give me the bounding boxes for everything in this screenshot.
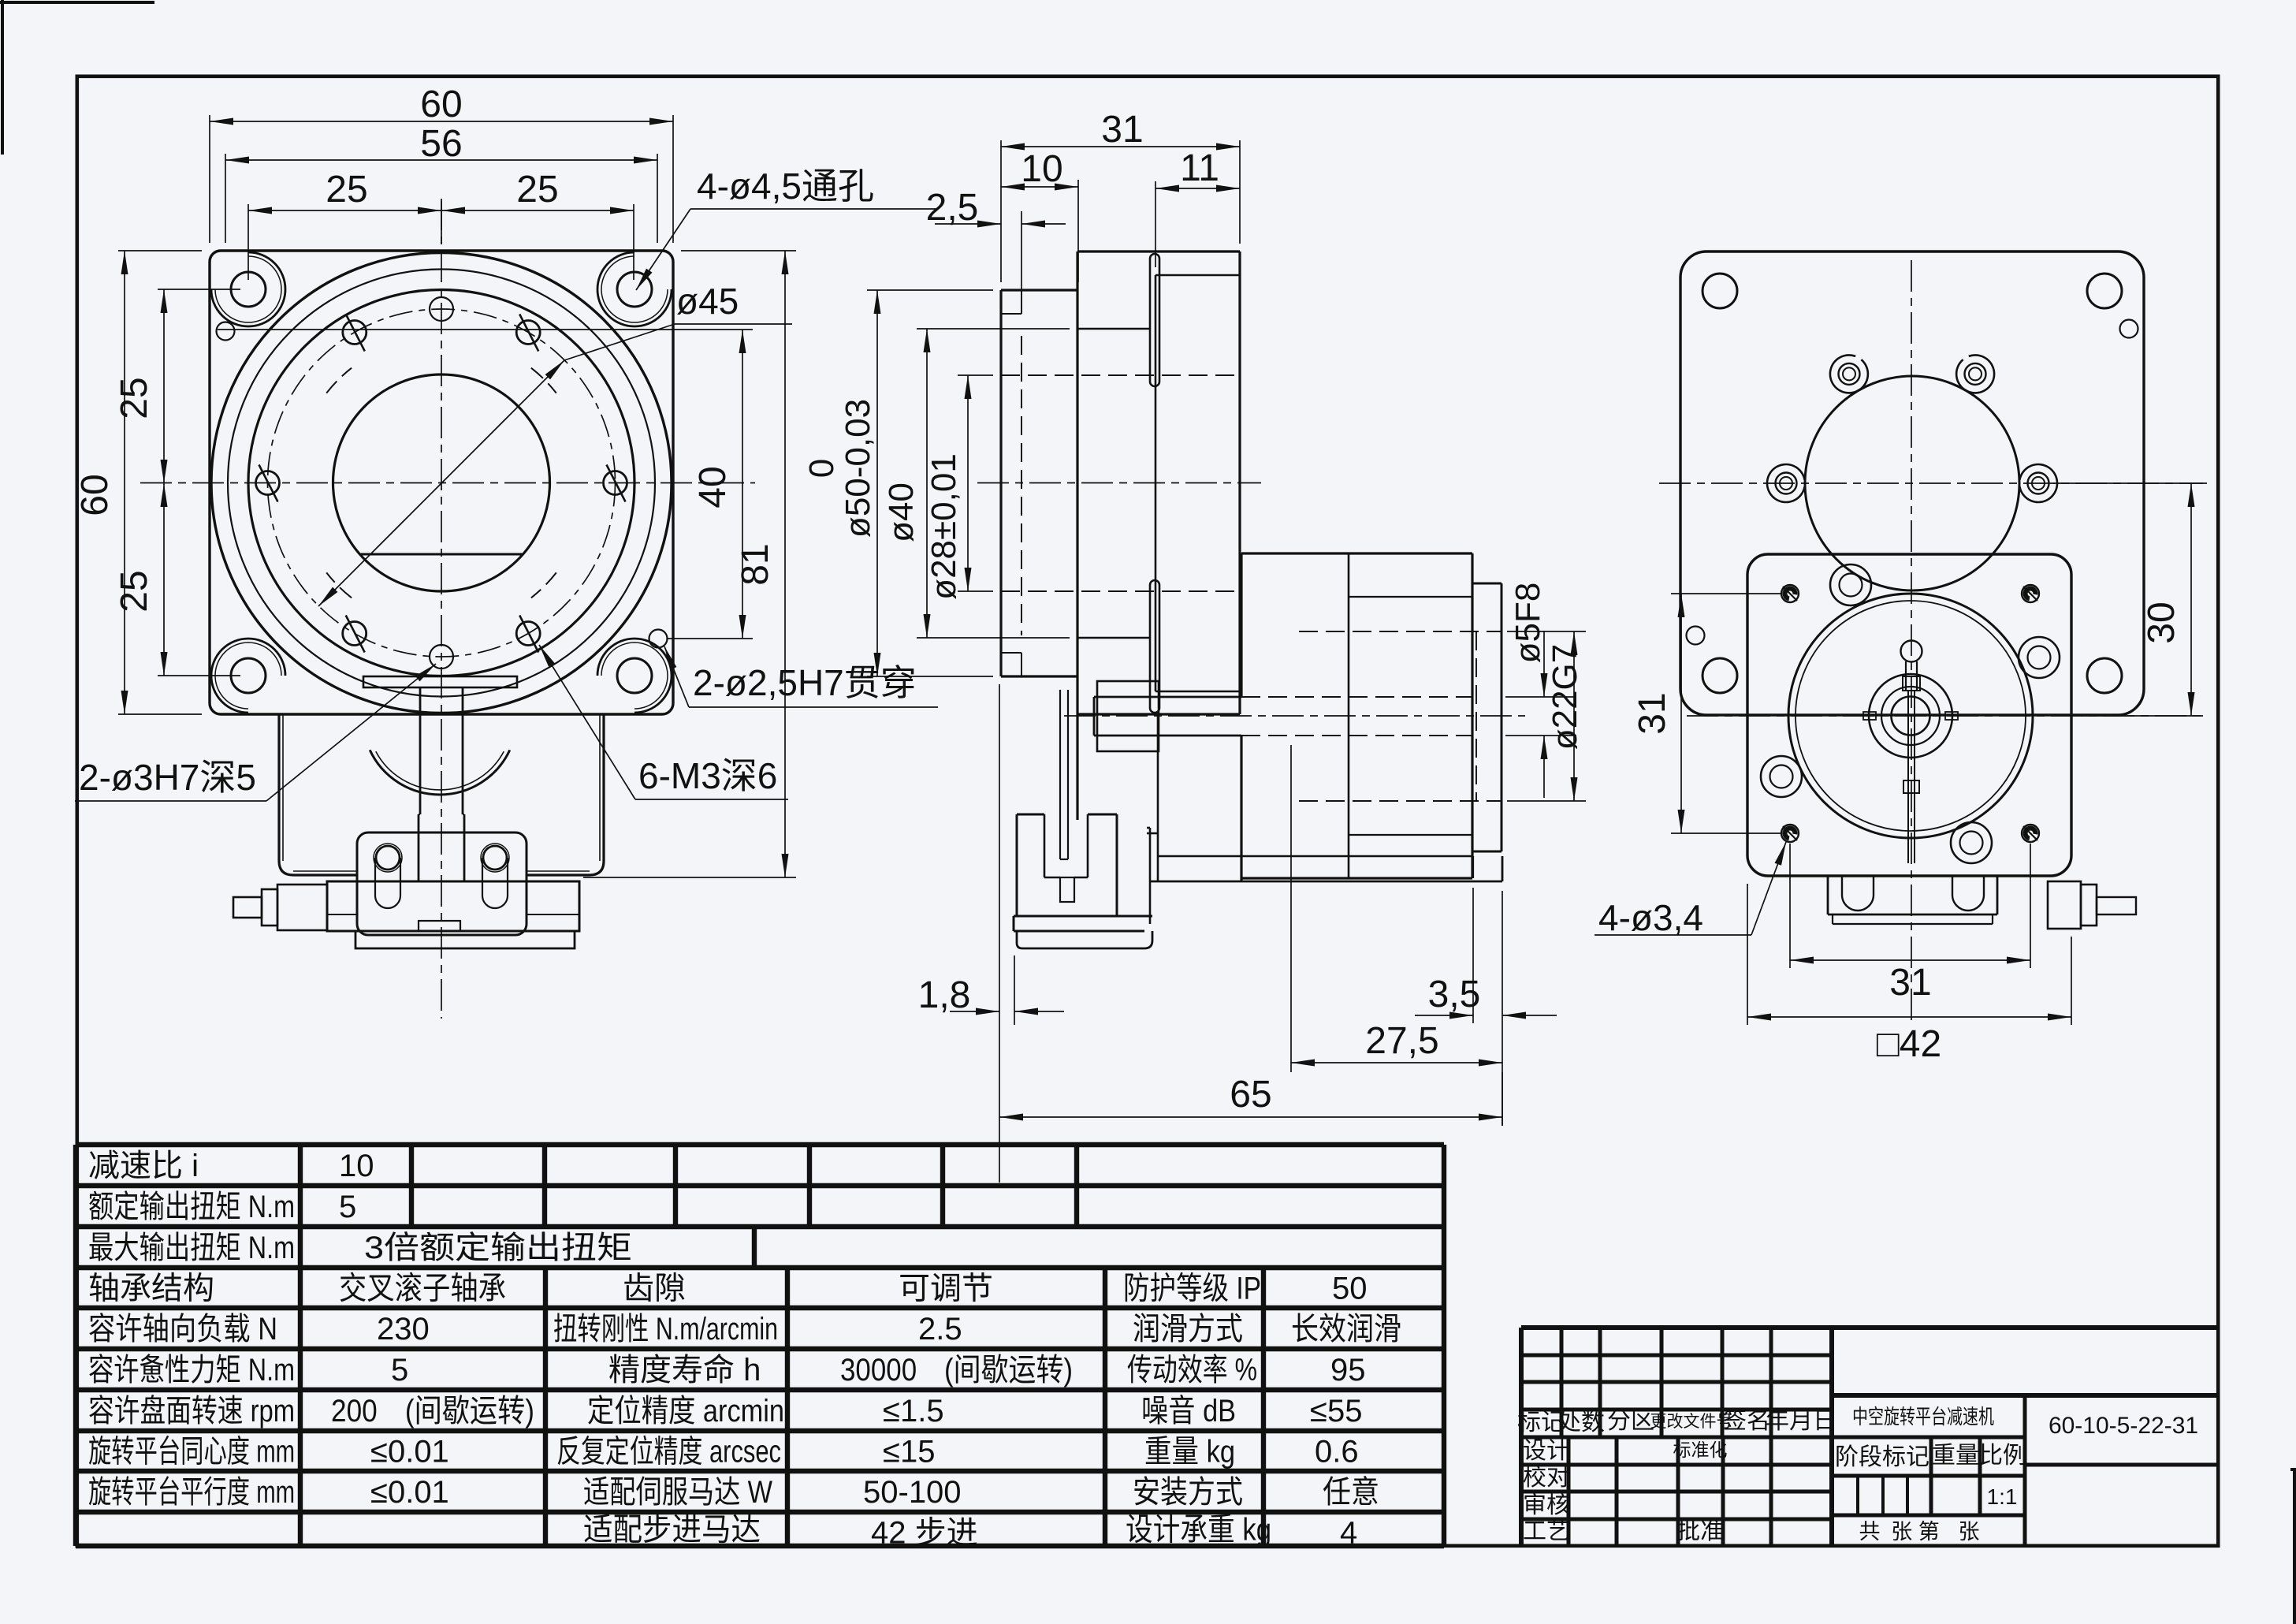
svg-text:25: 25 bbox=[113, 377, 155, 419]
svg-text:处数: 处数 bbox=[1557, 1410, 1605, 1436]
front view: housing outer circle bbox=[211, 253, 672, 713]
svg-text:张 第: 张 第 bbox=[1891, 1520, 1940, 1544]
svg-text:4: 4 bbox=[1340, 1516, 1357, 1551]
svg-text:反复定位精度 arcsec: 反复定位精度 arcsec bbox=[556, 1435, 781, 1469]
dimension 81 vertical right bbox=[681, 250, 796, 251]
svg-text:≤0.01: ≤0.01 bbox=[370, 1435, 449, 1469]
dimension 31 rear left bbox=[1671, 593, 1782, 594]
svg-text:50: 50 bbox=[1332, 1272, 1368, 1306]
svg-text:年月日: 年月日 bbox=[1766, 1408, 1836, 1434]
section view: bracket plate under motor bbox=[1158, 855, 1473, 858]
dimension 10 bbox=[1077, 180, 1079, 282]
dimension 11 bbox=[1155, 181, 1156, 267]
svg-text:润滑方式: 润滑方式 bbox=[1133, 1312, 1243, 1347]
svg-text:轴承结构: 轴承结构 bbox=[88, 1272, 214, 1306]
svg-text:25: 25 bbox=[326, 169, 367, 210]
svg-text:设计: 设计 bbox=[1523, 1438, 1570, 1464]
front view: motor connector bbox=[233, 897, 262, 918]
svg-text:齿隙: 齿隙 bbox=[623, 1272, 686, 1306]
dimension dia5F8 bbox=[1505, 696, 1576, 698]
svg-text:25: 25 bbox=[516, 169, 558, 210]
section view: motor pilot bore hidden bbox=[1299, 631, 1502, 632]
dimension 30 rear right bbox=[2053, 482, 2203, 484]
dimension 31 section top bbox=[1000, 140, 1002, 282]
svg-text:≤15: ≤15 bbox=[883, 1435, 935, 1469]
rear view: 4x ear lugs with screw holes bbox=[2019, 464, 2057, 502]
svg-text:50-100: 50-100 bbox=[863, 1475, 962, 1510]
svg-text:旋转平台同心度 mm: 旋转平台同心度 mm bbox=[88, 1435, 295, 1469]
front view: 2x dia3H7 pin holes top and bottom bbox=[430, 297, 453, 321]
svg-text:2-ø2,5H7贯穿: 2-ø2,5H7贯穿 bbox=[693, 662, 917, 703]
rear view: 2x clevis slots bbox=[1842, 876, 1874, 911]
svg-text:25: 25 bbox=[113, 570, 155, 612]
svg-text:批准: 批准 bbox=[1676, 1518, 1724, 1544]
section view: motor flange block bbox=[1240, 553, 1242, 697]
dimension dia28 bbox=[958, 374, 993, 376]
section view: platform disc left face bbox=[999, 290, 1002, 676]
svg-text:工艺: 工艺 bbox=[1523, 1518, 1570, 1544]
rear view: bottom bracket plate bbox=[1827, 876, 1829, 914]
rear view: gear housing rear circle bbox=[1805, 376, 2019, 590]
svg-text:65: 65 bbox=[1230, 1074, 1271, 1116]
svg-text:重量: 重量 bbox=[1932, 1443, 1979, 1469]
section view: motor shaft solid lines bbox=[1094, 696, 1241, 698]
rear view: 4x motor screws socket heads bbox=[1830, 564, 1871, 605]
rear view: housing square flange bbox=[1680, 251, 2144, 715]
svg-text:适配步进马达: 适配步进马达 bbox=[583, 1513, 761, 1548]
front view: 6x M3 tapped holes on dia 45 bbox=[604, 471, 627, 495]
svg-text:安装方式: 安装方式 bbox=[1133, 1475, 1243, 1510]
front view: pinion boss arc behind motor bbox=[370, 750, 510, 795]
dimension 3,5 bbox=[1472, 888, 1474, 1023]
rear view: 4x dia3.4 holes bbox=[1781, 585, 1799, 602]
section view: recess step hidden line bbox=[1021, 336, 1022, 635]
svg-text:4-ø4,5通孔: 4-ø4,5通孔 bbox=[697, 166, 874, 207]
section view: motor end cap bbox=[1473, 583, 1502, 585]
svg-text:容许惫性力矩 N.m: 容许惫性力矩 N.m bbox=[88, 1353, 295, 1387]
front view: slot under platform bbox=[363, 676, 517, 687]
svg-text:200 (间歇运转): 200 (间歇运转) bbox=[331, 1394, 534, 1428]
svg-text:更改文件号: 更改文件号 bbox=[1650, 1413, 1733, 1431]
front view: rotary platform edge circle bbox=[228, 270, 655, 697]
dimension 56 horizontal bbox=[225, 154, 226, 243]
svg-text:5: 5 bbox=[391, 1353, 408, 1387]
svg-text:比例: 比例 bbox=[1979, 1443, 2026, 1469]
title block right part lines bbox=[1832, 1393, 2218, 1398]
sheet corner mark bottom-right bbox=[2293, 1471, 2296, 1624]
svg-text:≤55: ≤55 bbox=[1310, 1394, 1362, 1428]
front view: motor mount bracket with clevis ears bbox=[357, 832, 527, 935]
section view: housing block bbox=[1076, 251, 1078, 820]
section view: horizontal centerline bbox=[977, 482, 1261, 484]
svg-text:容许盘面转速 rpm: 容许盘面转速 rpm bbox=[88, 1394, 295, 1428]
svg-text:10: 10 bbox=[339, 1149, 374, 1183]
svg-text:ø50-0,03: ø50-0,03 bbox=[839, 399, 877, 538]
front view: bolt circle dia 45 centerline bbox=[268, 309, 616, 657]
rear view: 4x corner holes bbox=[1702, 274, 1737, 308]
svg-text:标准化: 标准化 bbox=[1673, 1440, 1728, 1460]
svg-text:可调节: 可调节 bbox=[899, 1272, 993, 1306]
svg-text:阶段标记: 阶段标记 bbox=[1835, 1444, 1929, 1470]
dimension 65 bbox=[999, 1116, 1502, 1118]
svg-text:1:1: 1:1 bbox=[1987, 1484, 2018, 1509]
rear view: centerlines bbox=[1911, 260, 1912, 1026]
svg-text:噪音 dB: 噪音 dB bbox=[1141, 1394, 1236, 1428]
svg-text:中空旋转平台减速机: 中空旋转平台减速机 bbox=[1852, 1405, 1994, 1428]
svg-text:适配伺服马达 W: 适配伺服马达 W bbox=[583, 1475, 772, 1510]
rear view: motor pilot circles bbox=[1788, 594, 2033, 838]
dimension dia22G7 bbox=[1507, 631, 1586, 632]
rear view: motor flange square bbox=[1747, 554, 2071, 876]
section view: mounting screw hole sections bbox=[1150, 254, 1159, 386]
title block revision grid bbox=[1521, 1354, 1832, 1358]
svg-text:额定输出扭矩 N.m: 额定输出扭矩 N.m bbox=[88, 1190, 295, 1224]
dimension 2,5 bbox=[1021, 211, 1022, 307]
dimension dia50 bbox=[867, 289, 993, 291]
svg-text:校对: 校对 bbox=[1523, 1465, 1570, 1491]
section view: rear recess for motor flange bbox=[1155, 275, 1157, 691]
svg-text:长效润滑: 长效润滑 bbox=[1291, 1312, 1401, 1347]
dimension 31 rear bottom bbox=[1789, 844, 1791, 968]
svg-text:0.6: 0.6 bbox=[1315, 1435, 1359, 1469]
svg-text:□42: □42 bbox=[1877, 1023, 1941, 1065]
front view: output flange square plate bbox=[210, 251, 673, 714]
rear view: connector block bbox=[2048, 881, 2081, 929]
front view: base block bbox=[327, 881, 579, 931]
svg-text:张: 张 bbox=[1959, 1520, 1980, 1544]
svg-text:ø45: ø45 bbox=[676, 281, 739, 322]
svg-text:81: 81 bbox=[735, 543, 776, 585]
svg-text:防护等级 IP: 防护等级 IP bbox=[1123, 1272, 1261, 1306]
svg-text:31: 31 bbox=[1101, 109, 1143, 151]
dimension 1,8 bbox=[999, 684, 1000, 1183]
svg-text:2,5: 2,5 bbox=[926, 187, 979, 229]
dimension 27,5 bbox=[1290, 745, 1292, 1072]
svg-text:60: 60 bbox=[74, 474, 116, 516]
front view: horizontal centerline bbox=[140, 482, 755, 484]
section view: motor body bbox=[1349, 596, 1472, 598]
svg-text:5: 5 bbox=[339, 1190, 356, 1224]
svg-text:分区: 分区 bbox=[1607, 1408, 1654, 1434]
svg-text:30000 (间歇运转): 30000 (间歇运转) bbox=[840, 1353, 1073, 1387]
svg-text:6-M3深6: 6-M3深6 bbox=[638, 755, 777, 796]
svg-text:交叉滚子轴承: 交叉滚子轴承 bbox=[339, 1272, 506, 1306]
svg-text:2.5: 2.5 bbox=[918, 1312, 962, 1347]
front view: base bottom plate bbox=[355, 931, 575, 948]
svg-text:3,5: 3,5 bbox=[1428, 974, 1481, 1015]
front view: 2x dia2.5H7 dowel holes bbox=[217, 322, 235, 341]
front view: platform boss circle dia 50 bbox=[248, 290, 634, 676]
svg-text:扭转刚性 N.m/arcmin: 扭转刚性 N.m/arcmin bbox=[553, 1312, 778, 1347]
section view: U clamp bracket bbox=[1016, 814, 1018, 916]
svg-text:60-10-5-22-31: 60-10-5-22-31 bbox=[2049, 1413, 2198, 1439]
svg-text:31: 31 bbox=[1889, 962, 1931, 1004]
title block signature rows bbox=[1521, 1463, 1832, 1467]
svg-text:≤1.5: ≤1.5 bbox=[883, 1394, 944, 1428]
svg-text:0: 0 bbox=[802, 459, 841, 478]
svg-text:56: 56 bbox=[420, 123, 462, 165]
front view: motor flange bottom edge bbox=[279, 861, 357, 875]
dimension 40 vertical right bbox=[218, 329, 753, 330]
section view: dia40 bore lines bbox=[1077, 328, 1150, 330]
front view: vertical centerline bbox=[441, 199, 442, 1019]
front view: 4x corner mounting holes 4.5mm with recess arcs bbox=[231, 272, 266, 307]
dimension 25 25 vertical left bbox=[158, 289, 240, 290]
svg-text:重量 kg: 重量 kg bbox=[1144, 1435, 1235, 1469]
dimension 25 25 horizontal bbox=[247, 204, 249, 280]
svg-text:42 步进: 42 步进 bbox=[871, 1516, 978, 1551]
svg-text:旋转平台平行度 mm: 旋转平台平行度 mm bbox=[88, 1475, 295, 1510]
svg-text:ø28±0,01: ø28±0,01 bbox=[925, 453, 963, 600]
dimension dia40 bbox=[917, 328, 1070, 330]
svg-text:减速比 i: 减速比 i bbox=[88, 1149, 199, 1183]
svg-text:签名: 签名 bbox=[1723, 1408, 1770, 1434]
front view: pinion shaft column bbox=[419, 687, 422, 814]
dimension square 42 bbox=[1747, 884, 1748, 1025]
svg-text:审核: 审核 bbox=[1523, 1492, 1570, 1518]
section view: bracket base bbox=[1014, 915, 1152, 918]
svg-text:3倍额定输出扭矩: 3倍额定输出扭矩 bbox=[364, 1231, 632, 1265]
section view: adjusting screw pin bbox=[1059, 690, 1061, 859]
title block outer bbox=[1521, 1325, 2218, 1330]
svg-text:共: 共 bbox=[1859, 1520, 1881, 1544]
svg-text:容许轴向负载 N: 容许轴向负载 N bbox=[88, 1312, 277, 1347]
svg-text:30: 30 bbox=[2141, 602, 2183, 643]
svg-text:≤0.01: ≤0.01 bbox=[370, 1475, 449, 1510]
svg-text:传动效率 %: 传动效率 % bbox=[1127, 1353, 1257, 1387]
section view: pinion gear on shaft bbox=[1097, 681, 1159, 751]
svg-text:设计承重 kg: 设计承重 kg bbox=[1126, 1513, 1271, 1548]
svg-text:ø5F8: ø5F8 bbox=[1509, 583, 1547, 664]
svg-text:2-ø3H7深5: 2-ø3H7深5 bbox=[79, 757, 256, 798]
section view: motor shaft hidden lines bbox=[1241, 696, 1472, 698]
svg-text:4-ø3,4: 4-ø3,4 bbox=[1598, 897, 1703, 938]
front view: motor flange sides below housing bbox=[277, 714, 280, 861]
svg-text:1,8: 1,8 bbox=[918, 974, 971, 1016]
rear view: shaft boss circles bbox=[1869, 674, 1952, 758]
svg-text:10: 10 bbox=[1021, 148, 1062, 190]
svg-text:40: 40 bbox=[692, 466, 734, 508]
dimension 60 horizontal top bbox=[209, 115, 210, 243]
spec table grid bbox=[76, 1142, 1444, 1147]
svg-text:定位精度 arcmin: 定位精度 arcmin bbox=[587, 1394, 784, 1428]
svg-text:最大输出扭矩 N.m: 最大输出扭矩 N.m bbox=[88, 1231, 295, 1265]
svg-text:ø40: ø40 bbox=[882, 482, 921, 542]
sheet corner mark top-left bbox=[1, 0, 4, 155]
svg-text:95: 95 bbox=[1330, 1353, 1366, 1387]
svg-text:ø22G7: ø22G7 bbox=[1546, 644, 1584, 751]
svg-text:精度寿命 h: 精度寿命 h bbox=[608, 1353, 761, 1387]
rear view: side ticks on boss bbox=[1863, 712, 1876, 720]
section view: dia28 hidden lines bbox=[1001, 374, 1240, 376]
rear view: adjusting screw seen from back bbox=[1901, 641, 1922, 662]
section view: L bracket on housing back bbox=[1149, 828, 1152, 924]
svg-text:27,5: 27,5 bbox=[1365, 1020, 1438, 1062]
svg-text:60: 60 bbox=[420, 84, 462, 125]
svg-text:230: 230 bbox=[377, 1312, 430, 1347]
dimension 60 vertical left bbox=[118, 250, 202, 251]
svg-text:任意: 任意 bbox=[1323, 1475, 1379, 1510]
svg-text:31: 31 bbox=[1632, 692, 1673, 734]
front view: center hole dia 28 with chord bbox=[370, 564, 512, 591]
front view: hidden circle dash marks bbox=[531, 368, 556, 393]
section view: motor axis centerline bbox=[1064, 715, 1525, 717]
svg-text:11: 11 bbox=[1180, 147, 1219, 189]
rear view: 2x dowel holes bbox=[2120, 320, 2138, 338]
